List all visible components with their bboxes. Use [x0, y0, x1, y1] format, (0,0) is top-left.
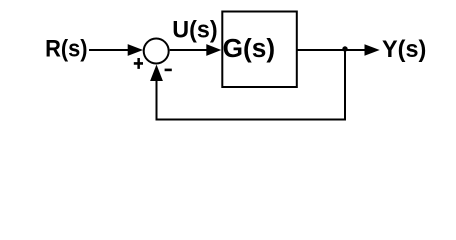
wire R(s) to summing junction [89, 44, 143, 56]
plus sign at summing junction input [134, 58, 143, 69]
minus sign at summing junction feedback input [165, 69, 172, 72]
label G(s) inside block [223, 35, 276, 63]
block G1 transfer function box [222, 12, 296, 88]
wire G(s) to output Y(s) [298, 44, 380, 56]
feedback wire up into summing junction [150, 65, 163, 121]
wire summing junction to block G(s) [170, 44, 222, 56]
feedback wire bottom horizontal segment [156, 119, 347, 121]
feedback wire vertical segment from junction dot [344, 50, 346, 119]
svg-text:G(s): G(s) [223, 35, 276, 63]
summing junction S1 [144, 39, 169, 64]
svg-text:R(s): R(s) [45, 35, 88, 62]
svg-text:U(s): U(s) [172, 17, 217, 44]
node Y(s) output label [382, 36, 426, 63]
svg-text:Y(s): Y(s) [382, 36, 426, 63]
node R(s) input label [45, 35, 88, 62]
junction node dot on output wire [342, 46, 347, 51]
node U(s) label [172, 17, 217, 44]
